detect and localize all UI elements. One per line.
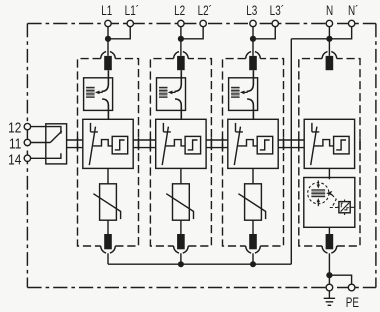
module border tick across bus [77, 138, 79, 151]
wire N module bottom to PE node [328, 253, 330, 287]
contact pad (striped) module L3 [231, 87, 240, 98]
terminal circle L2&#180; [200, 20, 206, 26]
terminal circle L3 [250, 20, 256, 26]
spark gap moving blade module L2 [162, 127, 168, 166]
svg-text:12: 12 [8, 119, 21, 136]
ignition dashed zigzag [332, 195, 336, 207]
terminal circle 14 [24, 155, 30, 161]
terminal circle 12 [24, 123, 30, 129]
module L1 bottom exit bump [101, 246, 116, 253]
module border tick across bus [359, 138, 361, 151]
wire N-bus riser [290, 39, 292, 264]
module border tick across bus [210, 138, 212, 151]
wire L2&#180; terminal elbow to junction [181, 24, 203, 39]
wire spark-gap to N-PE gap box [328, 168, 330, 179]
module L2 top entry bump [174, 52, 189, 59]
wire N&#180; terminal elbow to junction [329, 24, 351, 39]
spark gap fixed contact stub module L1 [91, 123, 98, 132]
wire N-bus bottom rail [108, 263, 291, 265]
svg-text:PE: PE [346, 294, 359, 310]
wire terminal 11 to contact pivot [27, 142, 50, 144]
wire varistor down module L1 [107, 220, 109, 234]
trigger circuit box module N [334, 136, 350, 154]
changeover contact blade [50, 131, 62, 142]
terminal circle L1 [105, 20, 111, 26]
wire PE branch to second terminal [329, 275, 351, 287]
module border tick across bus [298, 138, 300, 151]
trigger pulse line module L3 [238, 140, 257, 146]
svg-text:N: N [326, 2, 333, 18]
terminal circle N&#180; [348, 20, 354, 26]
wire monitoring bus lower segment [67, 147, 83, 149]
remote contact box [46, 124, 67, 164]
trigger pulse line module L1 [93, 140, 112, 146]
spark gap fixed contact stub module L2 [163, 123, 170, 132]
wire monitoring bus lower segment [206, 147, 228, 149]
terminal circle 11 [24, 139, 30, 145]
disconnect arrow module L1 [95, 91, 103, 95]
switch upper blade (curved) module L2 [175, 70, 182, 91]
disconnect arrow module L2 [168, 91, 176, 95]
wire N terminal down into module [328, 24, 330, 56]
terminal circle L3&#180; [272, 20, 278, 26]
module L1 enclosure (dashed) [78, 59, 139, 246]
wire varistor down module L2 [180, 220, 182, 234]
thermal disconnect element (top black) module L3 [249, 56, 257, 70]
wire monitoring bus upper segment [206, 139, 228, 141]
wire monitoring bus lower segment [133, 147, 156, 149]
thermal disconnect element (bottom black) module N [326, 234, 334, 249]
contact pad (striped) module L2 [159, 87, 168, 98]
junction dot rail module L2 [178, 261, 184, 267]
module border tick across bus [283, 138, 285, 151]
wire module L2 bottom to N rail [180, 253, 182, 264]
junction dot rail module L3 [250, 261, 256, 267]
spark gap electrode pad (striped) [311, 189, 325, 197]
thermal disconnect element (bottom black) module L1 [104, 234, 112, 249]
trigger circuit box module L3 [257, 136, 273, 154]
module L3 top entry bump [246, 52, 261, 59]
svg-text:L1´: L1´ [125, 2, 139, 18]
trigger unit stubs [337, 200, 355, 216]
ignition arrowhead (to circle) [326, 191, 332, 196]
wire L1&#180; terminal elbow to junction [108, 24, 130, 39]
svg-text:N´: N´ [348, 2, 358, 18]
terminal circle L2 [178, 20, 184, 26]
varistor R module L3 [245, 184, 262, 220]
terminal circle PE ground [326, 284, 333, 291]
spark gap fixed contact stub module N [312, 123, 319, 132]
disconnection device box module L3 [229, 78, 258, 111]
trigger unit step marks [341, 203, 349, 210]
trigger unit diagonal [341, 203, 350, 212]
N-PE spark gap box U4 [304, 178, 355, 228]
trigger unit box [339, 202, 350, 213]
junction dot N [326, 36, 332, 42]
wire module L1 bottom to N rail [107, 253, 109, 264]
switch lower blade + wire to spark-gap box module L1 [102, 99, 108, 119]
wire spark-gap to varistor module L2 [180, 168, 182, 183]
triggered spark-gap box module L1 [83, 119, 133, 168]
disconnection device box module L2 [157, 78, 186, 111]
varistor strike line module L2 [166, 194, 193, 219]
spark gap moving blade module N [311, 127, 317, 166]
trigger circuit box module L2 [185, 136, 201, 154]
varistor R module L2 [173, 184, 190, 220]
disconnect arrow module L3 [240, 91, 248, 95]
svg-text:L3´: L3´ [270, 2, 284, 18]
wire terminal 14 to contact box [27, 153, 61, 158]
module L3 enclosure (dashed) [223, 59, 284, 246]
device outline border left (dash-dot) [26, 24, 28, 288]
electrode arrow top (down) [317, 180, 320, 188]
varistor strike line module L1 [93, 194, 120, 219]
triggered spark-gap box module L2 [156, 119, 206, 168]
step symbol module L1 [115, 140, 125, 150]
wire L2 terminal down into module [180, 24, 182, 56]
wire monitoring bus upper segment [67, 139, 83, 141]
svg-text:L1: L1 [101, 2, 112, 18]
varistor strike line module L3 [238, 194, 265, 219]
switch lower blade + wire to spark-gap box module L2 [175, 99, 181, 119]
wire L3 terminal down into module [252, 24, 254, 56]
wire monitoring bus lower segment [278, 147, 304, 149]
spark gap dashed circle [308, 183, 329, 204]
wire monitoring bus upper segment [133, 139, 156, 141]
spark gap moving blade module L3 [234, 127, 240, 166]
step symbol module N [336, 140, 346, 150]
thermal disconnect element (bottom black) module L3 [249, 234, 257, 249]
module N enclosure (dashed) [299, 59, 360, 246]
module N bottom exit bump [322, 246, 337, 253]
module N top entry bump [322, 52, 337, 59]
svg-text:L2´: L2´ [198, 2, 212, 18]
wire L1 terminal down into module [107, 24, 109, 56]
contact pad (striped) module L1 [86, 87, 95, 98]
switch upper blade (curved) module L1 [102, 70, 109, 91]
junction dot L2 [178, 36, 184, 42]
svg-text:L2: L2 [174, 2, 185, 18]
thermal disconnect element (top black) module L2 [177, 56, 185, 70]
svg-text:L3: L3 [246, 2, 257, 18]
module border tick across bus [138, 138, 140, 151]
module border tick across bus [149, 138, 151, 151]
spark gap moving blade module L1 [89, 127, 95, 166]
switch upper blade (curved) module L3 [247, 70, 254, 91]
triggered spark-gap box module L3 [228, 119, 278, 168]
module L2 enclosure (dashed) [150, 59, 211, 246]
disconnection device box module L1 [84, 78, 113, 111]
wire spark-gap to varistor module L3 [252, 168, 254, 183]
triggered spark-gap box module N [304, 119, 354, 168]
terminal circle L1&#180; [127, 20, 133, 26]
varistor R module L1 [100, 184, 117, 220]
module L1 top entry bump [101, 52, 116, 59]
thermal disconnect element (bottom black) module L2 [177, 234, 185, 249]
wire module L3 bottom to N rail [252, 253, 254, 264]
module L2 bottom exit bump [174, 246, 189, 253]
wire N-PE gap box down [328, 227, 330, 234]
terminal circle PE [348, 284, 355, 291]
junction dot PE branch [326, 272, 332, 278]
wire terminal 12 to contact box [27, 127, 61, 134]
wire monitoring bus upper segment [278, 139, 304, 141]
terminal circle N [326, 20, 332, 26]
module L3 bottom exit bump [246, 246, 261, 253]
thermal disconnect element (top black) module N [326, 56, 334, 70]
ground symbol [324, 291, 335, 305]
wire spark-gap to varistor module L1 [107, 168, 109, 183]
device outline border right (dash-dot) [375, 24, 377, 288]
electrode arrow bottom (up) [317, 198, 320, 206]
wire varistor down module L3 [252, 220, 254, 234]
module border tick across bus [222, 138, 224, 151]
trigger pulse line module N [315, 140, 334, 146]
svg-text:14: 14 [8, 151, 22, 168]
switch lower blade + wire to spark-gap box module L3 [247, 99, 253, 119]
spark gap fixed contact stub module L3 [236, 123, 243, 132]
trigger circuit box module L1 [112, 136, 128, 154]
step symbol module L3 [260, 140, 270, 150]
svg-text:11: 11 [9, 135, 21, 152]
junction dot L1 [105, 36, 111, 42]
device outline border bottom (dash-dot) [27, 287, 376, 289]
junction dot L3 [250, 36, 256, 42]
trigger pulse line module L2 [166, 140, 185, 146]
wire L3&#180; terminal elbow to junction [253, 24, 275, 39]
wire N-bus top link to N node [291, 38, 329, 40]
step symbol module L2 [188, 140, 198, 150]
device outline border top (dash-dot) [27, 23, 376, 25]
thermal disconnect element (top black) module L1 [104, 56, 112, 70]
